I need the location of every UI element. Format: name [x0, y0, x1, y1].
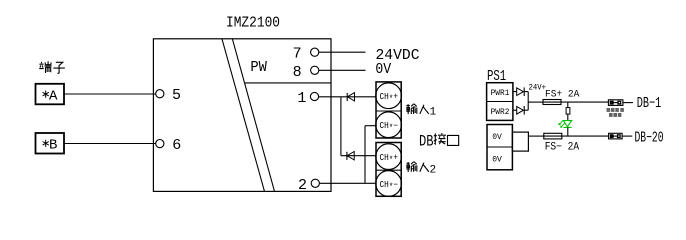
- pin CH*- circle 4: [376, 171, 402, 197]
- pin CH*+ circle 1: [376, 83, 402, 109]
- svg-text:DB: DB: [419, 133, 434, 151]
- svg-text:24V+: 24V+: [529, 83, 547, 92]
- svg-text:0V: 0V: [492, 133, 502, 142]
- wire from *B to pin 6: [64, 143, 156, 145]
- connector J1 upper shell: [376, 82, 401, 138]
- diode D1: [347, 93, 354, 102]
- LED D5: [558, 121, 571, 128]
- label *A: [43, 88, 58, 104]
- wire pin1 to CH1: [319, 96, 377, 98]
- svg-text:DB−1: DB−1: [637, 96, 662, 112]
- svg-text:8: 8: [293, 64, 302, 81]
- fuse FS+: [543, 100, 561, 105]
- svg-text:6: 6: [172, 137, 181, 154]
- isolation barrier diagonal 1: [222, 39, 265, 191]
- svg-text:PWR1: PWR1: [491, 89, 510, 98]
- label *B: [43, 138, 58, 154]
- svg-text:2: 2: [430, 164, 437, 176]
- connector J1 lower divider: [376, 169, 401, 171]
- fuse FS-: [544, 133, 562, 139]
- common negative bus wire: [364, 126, 366, 184]
- wire fuse FS+ to jumper J2: [561, 101, 608, 103]
- PS1 cell divider: [487, 101, 513, 103]
- svg-text:FS+ 2A: FS+ 2A: [545, 88, 580, 100]
- svg-text:FS− 2A: FS− 2A: [545, 142, 580, 154]
- svg-text:IMZ2100: IMZ2100: [226, 16, 280, 32]
- wire LED to FS- net: [567, 127, 569, 136]
- isolation barrier diagonal 2: [232, 39, 274, 191]
- pin 6 circle: [156, 140, 164, 148]
- svg-text:B: B: [49, 138, 57, 154]
- wire resistor to LED: [567, 114, 569, 121]
- wire pin2 to CH4: [319, 182, 376, 184]
- pin 5 circle: [156, 90, 164, 98]
- diode output join wire: [527, 92, 529, 111]
- pin 8 circle: [311, 66, 319, 74]
- wire pin7 to 24VDC: [319, 51, 366, 53]
- module U1 IMZ2100 box: [153, 39, 331, 192]
- terminal box *A: [36, 84, 65, 105]
- svg-text:PW: PW: [250, 59, 267, 76]
- terminal box *B: [36, 133, 65, 154]
- pin 1 circle: [310, 92, 318, 100]
- label 输入2: [406, 162, 436, 177]
- branch wire down from pin1 net: [340, 97, 342, 156]
- label 输入1: [406, 104, 436, 119]
- wire join to fuse FS+: [528, 101, 543, 103]
- svg-text:1: 1: [297, 90, 306, 107]
- svg-text:2: 2: [298, 177, 307, 194]
- diode D3: [517, 87, 529, 96]
- diode D2: [347, 152, 354, 160]
- svg-text:0V: 0V: [492, 156, 502, 165]
- diode D4: [517, 106, 529, 115]
- wire pin8 to 0V: [319, 69, 366, 71]
- resistor R1: [566, 108, 570, 115]
- stub wire bus to CH2: [365, 125, 377, 127]
- wire PWR2 to D4: [513, 109, 517, 111]
- 0V join bracket: [512, 132, 528, 151]
- label 端子 (terminal): [39, 61, 65, 73]
- wire PWR1 to D3: [513, 91, 517, 93]
- svg-text:7: 7: [293, 46, 302, 63]
- pin CH*- circle 2: [376, 112, 402, 138]
- wire jumper J2 to DB-1: [623, 102, 633, 104]
- svg-text:1: 1: [430, 107, 437, 119]
- jumper J2 (power set shorting cap): [608, 100, 623, 106]
- connector J1 lower shell: [376, 143, 401, 197]
- pin 2 circle: [311, 179, 319, 187]
- wire from *A to pin 5: [64, 93, 156, 95]
- power supply PS1 box: [487, 83, 513, 121]
- PW section separator line: [245, 82, 332, 84]
- ground box 0V: [487, 125, 512, 170]
- 0V cell divider: [487, 146, 512, 148]
- svg-text:0V: 0V: [375, 61, 391, 78]
- wire fuse FS- to jumper J3: [562, 135, 609, 137]
- connector J1 upper divider: [376, 110, 401, 112]
- pin CH*+ circle 3: [376, 144, 402, 170]
- svg-text:DB−20: DB−20: [635, 130, 664, 146]
- pin 7 circle: [311, 48, 319, 56]
- svg-text:5: 5: [172, 87, 181, 104]
- label 电源设置 (tiny): [607, 108, 624, 112]
- jumper J3: [609, 133, 623, 139]
- LED branch wire down: [567, 102, 569, 108]
- wire jumper J3 to DB-20: [622, 135, 632, 137]
- label 短路帽 (tiny): [609, 113, 621, 117]
- svg-text:A: A: [49, 88, 58, 104]
- label DB接口: [419, 133, 459, 151]
- wire bracket to fuse FS-: [528, 135, 543, 137]
- svg-text:PWR2: PWR2: [491, 108, 510, 117]
- wire branch to CH3: [341, 155, 377, 157]
